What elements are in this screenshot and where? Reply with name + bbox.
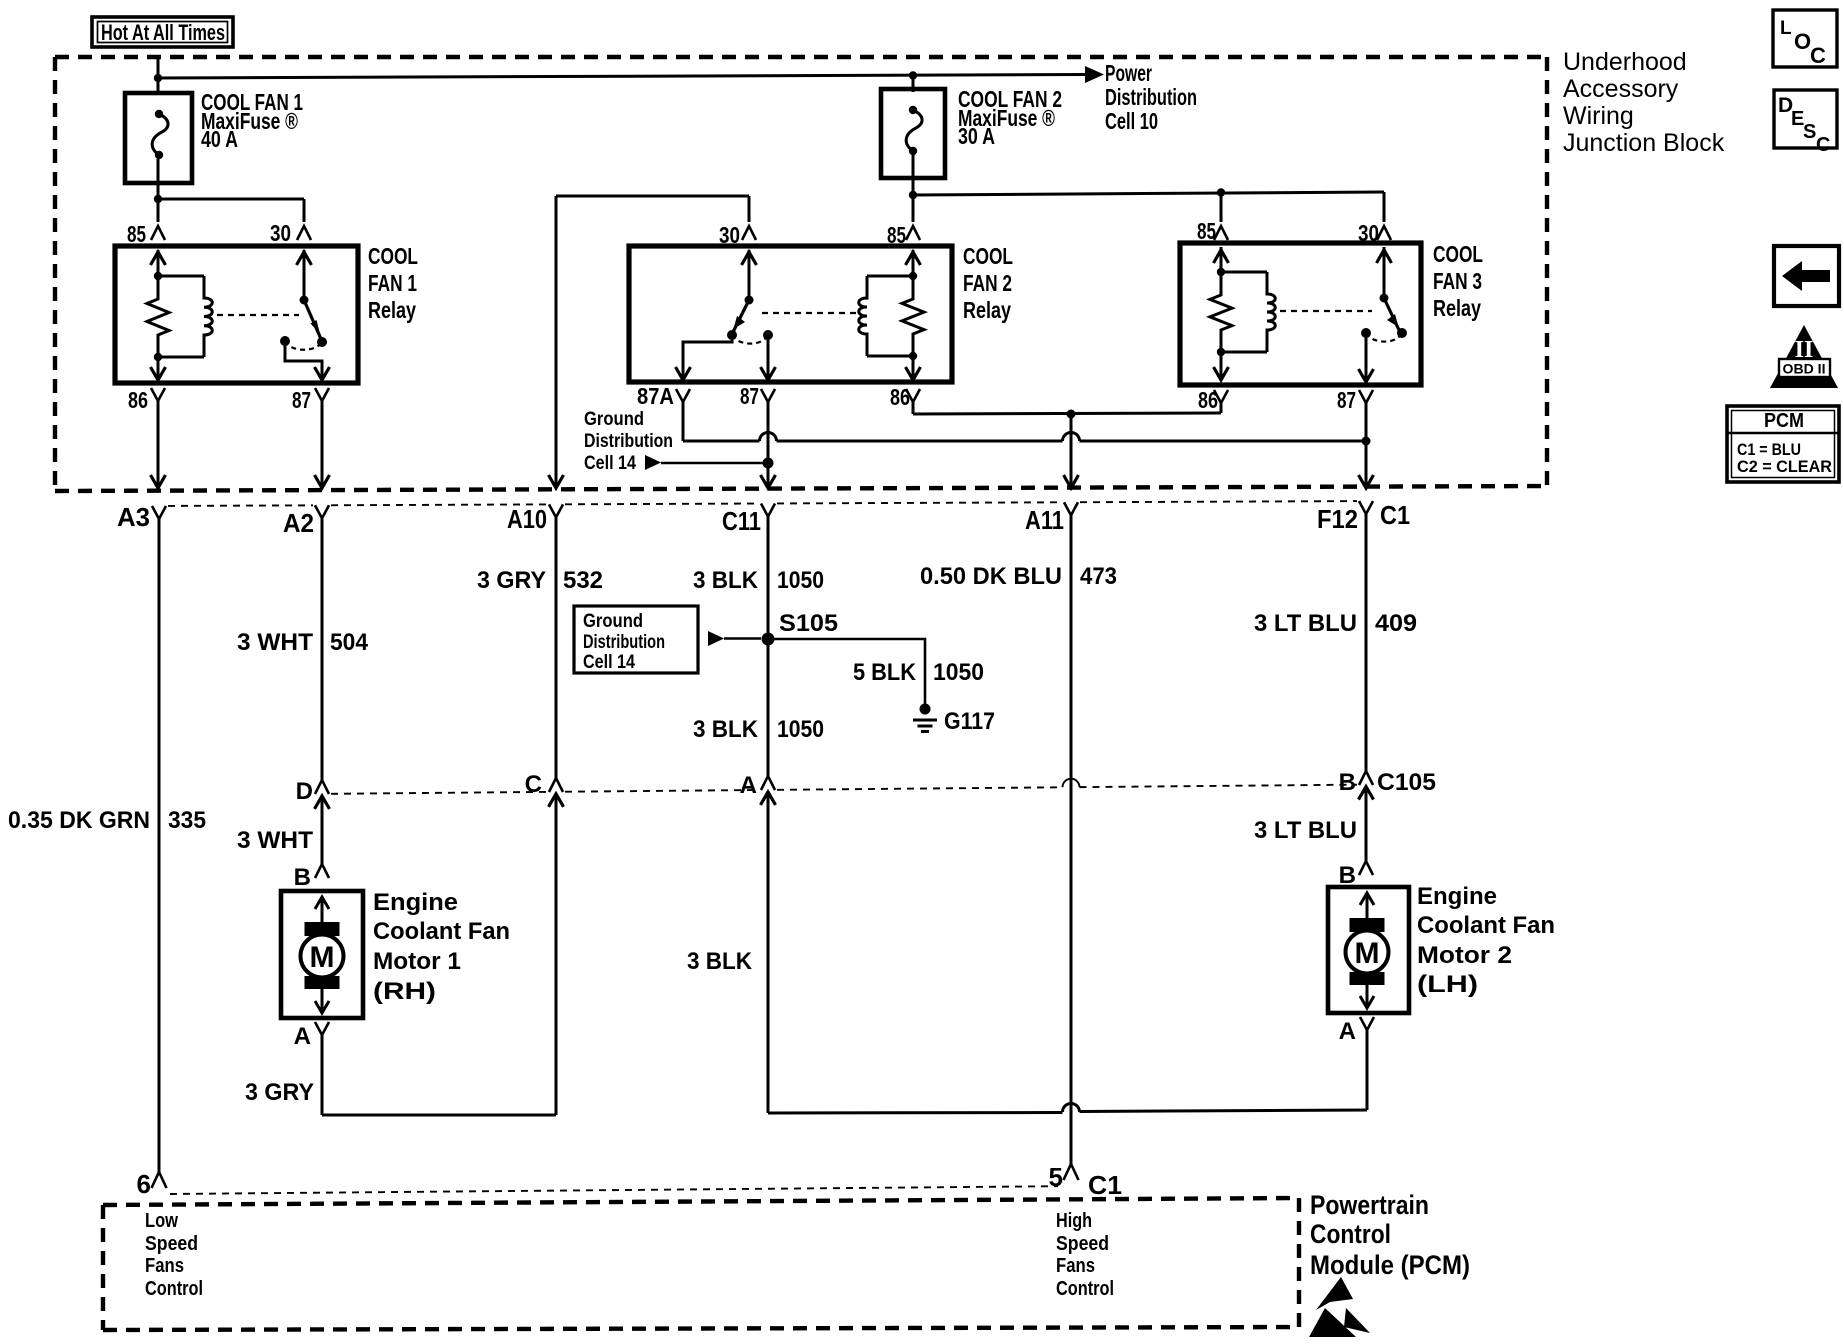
svg-text:409: 409 (1375, 610, 1417, 637)
svg-text:A: A (740, 772, 757, 799)
svg-text:5 BLK: 5 BLK (853, 659, 917, 686)
svg-text:85: 85 (1197, 218, 1216, 244)
svg-text:Motor 2: Motor 2 (1417, 942, 1512, 969)
svg-text:1050: 1050 (777, 716, 824, 743)
svg-text:335: 335 (168, 807, 206, 834)
svg-text:3 GRY: 3 GRY (245, 1079, 314, 1106)
svg-text:A10: A10 (507, 504, 547, 534)
svg-text:C: C (525, 771, 542, 798)
svg-text:S: S (1803, 121, 1816, 143)
svg-text:87: 87 (292, 387, 311, 413)
svg-text:G117: G117 (944, 708, 995, 735)
svg-text:30: 30 (719, 222, 740, 248)
svg-text:Control: Control (1310, 1219, 1391, 1249)
svg-text:A11: A11 (1025, 505, 1064, 535)
svg-text:Engine: Engine (1417, 883, 1497, 910)
svg-text:A: A (1339, 1018, 1356, 1045)
svg-text:C: C (1810, 43, 1826, 68)
svg-text:85: 85 (887, 222, 906, 248)
svg-text:Junction Block: Junction Block (1563, 129, 1725, 157)
svg-text:Relay: Relay (963, 297, 1011, 323)
svg-text:Hot At All Times: Hot At All Times (101, 20, 225, 45)
svg-text:Relay: Relay (368, 297, 416, 323)
svg-text:3 GRY: 3 GRY (477, 567, 546, 594)
svg-text:Speed: Speed (145, 1233, 198, 1255)
svg-text:Underhood: Underhood (1563, 48, 1687, 76)
svg-text:Power: Power (1105, 60, 1152, 86)
svg-text:C1: C1 (1088, 1170, 1122, 1200)
svg-text:1050: 1050 (777, 567, 824, 594)
svg-text:B: B (1339, 769, 1356, 796)
svg-text:87: 87 (1337, 387, 1356, 413)
svg-text:3 BLK: 3 BLK (687, 948, 753, 975)
svg-text:Cell 14: Cell 14 (583, 652, 635, 673)
svg-text:85: 85 (127, 221, 146, 247)
svg-text:3 BLK: 3 BLK (693, 716, 759, 743)
svg-text:D: D (296, 778, 313, 805)
svg-text:S105: S105 (779, 610, 838, 637)
svg-text:Coolant Fan: Coolant Fan (1417, 912, 1555, 939)
svg-text:C1: C1 (1380, 500, 1410, 530)
svg-text:FAN 1: FAN 1 (368, 270, 417, 296)
svg-text:Cell 10: Cell 10 (1105, 108, 1158, 134)
svg-text:COOL: COOL (1433, 241, 1483, 267)
svg-text:87: 87 (740, 383, 759, 409)
svg-text:473: 473 (1080, 563, 1117, 590)
svg-text:FAN 2: FAN 2 (963, 270, 1012, 296)
svg-text:86: 86 (128, 387, 148, 413)
svg-text:Distribution: Distribution (583, 632, 665, 653)
svg-text:86: 86 (890, 384, 910, 410)
svg-text:A3: A3 (117, 502, 150, 532)
svg-text:Powertrain: Powertrain (1310, 1190, 1429, 1220)
svg-text:A2: A2 (283, 508, 314, 538)
svg-text:504: 504 (330, 629, 369, 656)
svg-text:Module (PCM): Module (PCM) (1310, 1250, 1470, 1280)
svg-text:Cell 14: Cell 14 (584, 453, 636, 474)
svg-text:High: High (1056, 1210, 1092, 1232)
svg-text:3 WHT: 3 WHT (237, 827, 313, 854)
svg-text:5: 5 (1049, 1162, 1063, 1192)
svg-text:3 BLK: 3 BLK (693, 567, 759, 594)
svg-text:Distribution: Distribution (1105, 84, 1197, 110)
svg-text:C2 = CLEAR: C2 = CLEAR (1737, 457, 1832, 476)
svg-text:Control: Control (145, 1278, 203, 1300)
svg-text:Low: Low (145, 1210, 178, 1232)
svg-text:Ground: Ground (583, 611, 643, 632)
svg-text:C105: C105 (1377, 769, 1436, 796)
svg-text:Ground: Ground (584, 409, 644, 430)
svg-text:C: C (1816, 134, 1830, 156)
svg-text:B: B (294, 864, 311, 891)
svg-text:30 A: 30 A (958, 123, 995, 149)
svg-text:0.35 DK GRN: 0.35 DK GRN (8, 807, 150, 834)
svg-text:Engine: Engine (373, 889, 458, 916)
svg-text:(LH): (LH) (1417, 971, 1478, 998)
svg-text:Fans: Fans (145, 1255, 184, 1277)
svg-text:1050: 1050 (933, 659, 984, 686)
svg-text:COOL: COOL (963, 243, 1013, 269)
svg-text:M: M (310, 941, 335, 974)
svg-text:Coolant Fan: Coolant Fan (373, 918, 510, 945)
svg-text:OBD II: OBD II (1783, 361, 1826, 377)
svg-text:PCM: PCM (1764, 410, 1804, 432)
svg-text:3 LT BLU: 3 LT BLU (1254, 610, 1357, 637)
svg-text:(RH): (RH) (373, 978, 436, 1005)
svg-text:40 A: 40 A (201, 126, 238, 152)
svg-text:M: M (1355, 937, 1380, 970)
svg-text:A: A (294, 1023, 311, 1050)
svg-text:Relay: Relay (1433, 295, 1481, 321)
svg-text:Wiring: Wiring (1563, 102, 1634, 130)
svg-text:F12: F12 (1317, 504, 1358, 534)
svg-text:Motor 1: Motor 1 (373, 948, 461, 975)
svg-text:0.50 DK BLU: 0.50 DK BLU (920, 563, 1062, 590)
svg-text:O: O (1794, 29, 1811, 54)
svg-text:Accessory: Accessory (1563, 75, 1679, 103)
svg-text:532: 532 (563, 567, 603, 594)
svg-text:30: 30 (270, 220, 291, 246)
svg-text:Speed: Speed (1056, 1233, 1109, 1255)
svg-text:L: L (1780, 18, 1792, 39)
svg-text:6: 6 (137, 1169, 151, 1199)
svg-text:Distribution: Distribution (584, 431, 673, 452)
svg-text:30: 30 (1358, 220, 1379, 246)
svg-text:C11: C11 (722, 506, 761, 536)
svg-text:Control: Control (1056, 1278, 1114, 1300)
svg-text:3 LT BLU: 3 LT BLU (1254, 817, 1357, 844)
svg-text:87A: 87A (637, 383, 674, 409)
svg-text:Fans: Fans (1056, 1255, 1095, 1277)
svg-text:COOL: COOL (368, 243, 418, 269)
svg-text:FAN 3: FAN 3 (1433, 268, 1482, 294)
svg-text:3 WHT: 3 WHT (237, 629, 313, 656)
